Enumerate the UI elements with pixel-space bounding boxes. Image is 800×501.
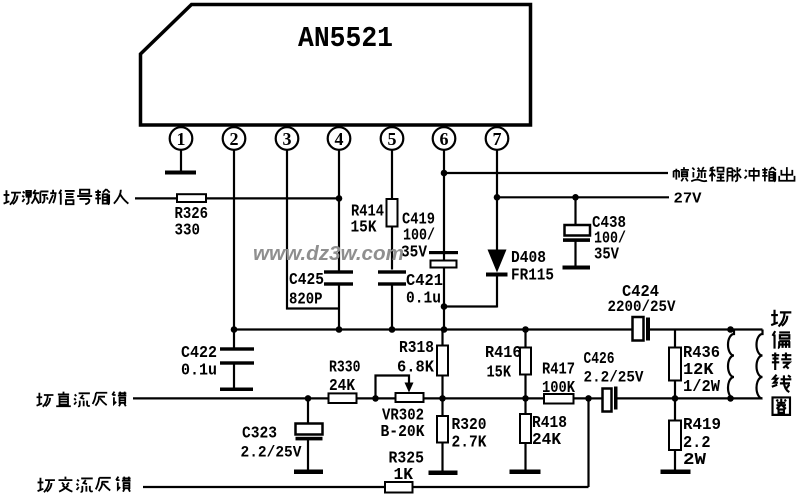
resistor R325 bbox=[385, 482, 413, 493]
svg-text:820P: 820P bbox=[289, 290, 323, 309]
node junction bus-pin2 bbox=[231, 326, 238, 333]
svg-text:R330: R330 bbox=[329, 358, 361, 377]
svg-text:35V: 35V bbox=[401, 243, 427, 262]
svg-text:15K: 15K bbox=[351, 218, 377, 237]
svg-text:24K: 24K bbox=[532, 430, 561, 449]
pin 3 bbox=[276, 127, 299, 150]
wire C421 bottom to bus bbox=[391, 285, 393, 330]
svg-text:C421: C421 bbox=[406, 271, 443, 290]
resistor R320 bbox=[437, 416, 448, 443]
wire frame retrace pulse output bbox=[444, 172, 668, 174]
label field-AC-feedback bbox=[38, 477, 131, 493]
ground R419 bbox=[661, 470, 691, 475]
wire R436 branch bbox=[674, 330, 676, 399]
capacitor C421 bbox=[378, 270, 406, 273]
node junction bus-pin6 bbox=[441, 326, 448, 333]
wire pin3 to C425 bottom bbox=[286, 307, 339, 309]
wire pin7 down to D408 bbox=[496, 150, 498, 251]
node junction C426-AC riser bbox=[585, 395, 592, 402]
wire pin2 down to C422 bbox=[233, 150, 235, 349]
pin 5 bbox=[381, 127, 404, 150]
ground R418 bbox=[510, 470, 541, 475]
wire DC feedback line bbox=[133, 397, 589, 399]
wire main bus left of C424 bbox=[234, 328, 633, 330]
wire R419 branch bbox=[674, 398, 676, 471]
ground R320 bbox=[429, 471, 458, 476]
pin 1 bbox=[170, 127, 193, 150]
svg-text:R318: R318 bbox=[399, 338, 434, 357]
svg-text:100K: 100K bbox=[542, 378, 575, 397]
wire C323 lower bbox=[307, 440, 309, 471]
node junction lower-coil bbox=[727, 395, 734, 402]
resistor R419 bbox=[669, 421, 681, 451]
svg-text:27V: 27V bbox=[674, 191, 702, 208]
wire R320 branch bbox=[441, 398, 443, 471]
wire C425 bottom to bus bbox=[338, 285, 340, 330]
svg-text:R417: R417 bbox=[542, 360, 575, 379]
wire C438 drop bbox=[574, 197, 576, 226]
wire R416 branch bbox=[524, 330, 526, 399]
wire AC feedback riser bbox=[587, 398, 589, 487]
svg-text:3: 3 bbox=[283, 129, 292, 149]
svg-text:1K: 1K bbox=[394, 465, 414, 484]
label field-DC-feedback bbox=[37, 392, 127, 407]
svg-text:AN5521: AN5521 bbox=[298, 22, 393, 55]
svg-text:6: 6 bbox=[440, 129, 449, 149]
wire bus right of C424 to coil bbox=[649, 328, 763, 330]
node junction bus-coil bbox=[727, 326, 734, 333]
resistor R414 bbox=[387, 199, 398, 227]
svg-text:FR115: FR115 bbox=[511, 266, 554, 285]
label field-drive-signal-input bbox=[4, 189, 129, 205]
node junction 27V-C438 bbox=[572, 194, 579, 201]
svg-text:5: 5 bbox=[388, 129, 397, 149]
wire pin6 down through C419 to bus bbox=[443, 150, 445, 331]
capacitor C438 bbox=[565, 225, 591, 236]
pin 7 bbox=[486, 127, 509, 150]
resistor R330 bbox=[329, 393, 357, 403]
svg-text:D408: D408 bbox=[511, 248, 546, 267]
wire pin1 stub bbox=[180, 150, 182, 172]
node junction pin7-27V bbox=[494, 194, 501, 201]
wire C438 lower bbox=[574, 242, 576, 267]
ground T-bar C323 bbox=[294, 470, 323, 475]
node junction pin4-input bbox=[336, 195, 343, 202]
pin 2 bbox=[223, 127, 246, 150]
capacitor C425 bbox=[324, 270, 353, 273]
svg-text:R416: R416 bbox=[485, 343, 522, 362]
node junction R416-R418 bbox=[522, 395, 529, 402]
ground pin1 bbox=[165, 171, 196, 175]
wire C422 lower bbox=[233, 365, 235, 389]
svg-text:0.1u: 0.1u bbox=[181, 361, 217, 380]
wire node to C426 bbox=[589, 397, 604, 399]
wire VR302 wiper bbox=[376, 376, 410, 399]
diode D408 FR115 bbox=[488, 250, 507, 273]
node junction pin6-D408 jog bbox=[441, 303, 448, 310]
wire AC feedback line bbox=[143, 486, 589, 488]
svg-text:C426: C426 bbox=[584, 349, 615, 368]
svg-text:15K: 15K bbox=[487, 363, 512, 382]
svg-text:R320: R320 bbox=[452, 415, 487, 434]
VR302 wiper arrowhead bbox=[405, 383, 414, 393]
node junction R436-R419 bbox=[672, 395, 679, 402]
IC U1 AN5521 body bbox=[141, 5, 531, 126]
resistor R418 bbox=[520, 414, 531, 443]
capacitor C323 bbox=[296, 424, 323, 435]
svg-text:2200/25V: 2200/25V bbox=[608, 298, 677, 316]
wire pin3 down bbox=[286, 150, 288, 310]
svg-text:2: 2 bbox=[230, 129, 239, 149]
wire D408 cathode down bbox=[496, 276, 498, 308]
wire 27V line bbox=[497, 196, 669, 198]
resistor R416 bbox=[520, 348, 531, 375]
svg-text:24K: 24K bbox=[329, 376, 355, 395]
pin 6 bbox=[433, 127, 456, 150]
wire R318 branch bbox=[441, 330, 443, 399]
label field-deflection-coil bbox=[771, 310, 791, 415]
resistor R318 bbox=[437, 346, 448, 376]
wire D408 to pin6 line jog bbox=[444, 305, 497, 307]
wire C323 drop bbox=[307, 398, 309, 424]
svg-text:2.7K: 2.7K bbox=[452, 433, 487, 452]
svg-text:C425: C425 bbox=[289, 270, 324, 289]
wire lower line C426 to coil bbox=[617, 397, 763, 399]
capacitor C419 bbox=[429, 251, 458, 254]
potentiometer VR302 bbox=[396, 393, 424, 402]
svg-text:B-20K: B-20K bbox=[381, 422, 425, 441]
deflection coil L windings bbox=[728, 330, 734, 399]
wire pin5 down through R414 to C421 bbox=[391, 150, 393, 270]
label frame-retrace-pulse-output bbox=[674, 167, 795, 181]
svg-text:2.2/25V: 2.2/25V bbox=[584, 369, 645, 387]
node junction pin6-pulse bbox=[441, 170, 448, 177]
svg-text:6.8K: 6.8K bbox=[397, 358, 434, 377]
node junction DC-VR302 left bbox=[372, 395, 379, 402]
capacitor C424 bbox=[633, 317, 644, 341]
resistor R326 bbox=[177, 194, 206, 202]
svg-text:1: 1 bbox=[177, 129, 186, 149]
ground T-bar C422 bbox=[220, 388, 253, 392]
node junction bus-R416 bbox=[522, 326, 529, 333]
capacitor C422 bbox=[220, 347, 254, 350]
svg-text:2W: 2W bbox=[683, 450, 706, 469]
node junction R318-R320 bbox=[439, 395, 446, 402]
wire R418 branch bbox=[524, 398, 526, 471]
svg-text:R419: R419 bbox=[683, 415, 721, 434]
wire pin4 down to C425 bbox=[338, 150, 340, 272]
svg-text:4: 4 bbox=[335, 129, 344, 149]
capacitor C426 bbox=[603, 389, 612, 412]
node junction DC-C323 bbox=[305, 395, 312, 402]
svg-text:7: 7 bbox=[493, 129, 502, 149]
svg-text:2.2/25V: 2.2/25V bbox=[241, 444, 303, 462]
node junction bus-C421 bbox=[389, 326, 396, 333]
svg-text:35V: 35V bbox=[594, 245, 619, 264]
svg-text:C422: C422 bbox=[181, 343, 217, 362]
svg-text:www.dz3w.com: www.dz3w.com bbox=[253, 243, 404, 265]
wire input line to pin4 bbox=[135, 197, 339, 199]
resistor R436 bbox=[669, 348, 681, 381]
svg-text:C323: C323 bbox=[242, 424, 277, 443]
svg-text:0.1u: 0.1u bbox=[406, 289, 441, 308]
node junction bus-C425 bbox=[336, 326, 343, 333]
pin 4 bbox=[328, 127, 351, 150]
svg-text:1/2W: 1/2W bbox=[683, 377, 720, 396]
resistor R417 bbox=[544, 394, 574, 404]
svg-text:330: 330 bbox=[175, 221, 201, 240]
